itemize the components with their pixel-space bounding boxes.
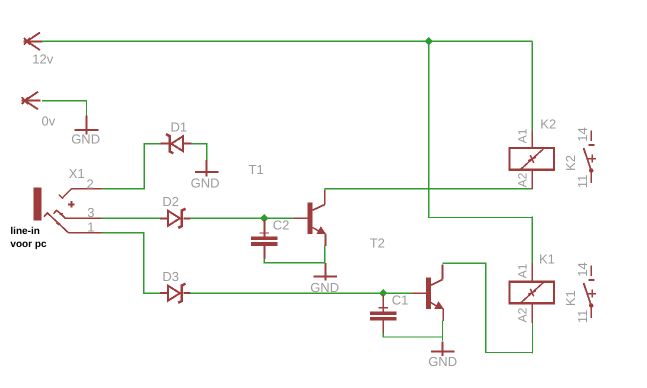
svg-text:3: 3 [87, 205, 94, 220]
wire D2 to junction [190, 217, 264, 219]
connector X1 pin 2 contact [59, 189, 102, 198]
wire 12v to K2 A1 [531, 41, 533, 131]
svg-text:GND: GND [71, 132, 100, 147]
svg-text:A2: A2 [516, 172, 530, 187]
wire 12v rail [42, 40, 532, 42]
diode D2 zener [160, 209, 191, 228]
svg-text:11: 11 [575, 175, 590, 189]
ground symbol below D1 [195, 160, 219, 177]
svg-text:K1: K1 [563, 290, 578, 306]
svg-text:A1: A1 [516, 263, 530, 278]
svg-text:A2: A2 [516, 307, 530, 322]
wire X1 pin 2 to D1 [101, 188, 144, 190]
ground symbol below T2 [431, 341, 455, 356]
wire X1 pin 3 to D2 [101, 217, 160, 219]
svg-text:K1: K1 [539, 251, 555, 266]
svg-text:D2: D2 [162, 194, 179, 209]
wire X1 pin 1 to D3 [101, 232, 143, 234]
diode D3 zener [160, 284, 191, 303]
svg-text:X1: X1 [69, 166, 85, 181]
svg-text:0v: 0v [42, 113, 56, 128]
relay coil K2 [510, 148, 555, 170]
supply arrow 12v [24, 33, 43, 51]
junction at C1 tap [379, 289, 387, 297]
relay coil K1 pin A2 [531, 304, 533, 323]
svg-text:14: 14 [575, 262, 590, 276]
wire T1 emitter down [324, 246, 326, 264]
junction on 12v rail [424, 37, 432, 45]
svg-text:12v: 12v [32, 51, 53, 66]
svg-text:2: 2 [87, 176, 94, 191]
svg-text:1: 1 [87, 219, 94, 234]
wire 12v rail to K1 branch [428, 41, 430, 217]
svg-text:A1: A1 [516, 128, 530, 143]
wire branch to K1 A1 horizontal [428, 217, 533, 219]
svg-text:C1: C1 [392, 292, 409, 307]
svg-text:K2: K2 [563, 155, 578, 171]
svg-text:T2: T2 [370, 236, 385, 251]
svg-text:GND: GND [191, 175, 220, 190]
connector X1 pin 3 contact dimple [60, 213, 63, 216]
wire T2 emitter to ground [442, 320, 444, 341]
junction at C2 tap [260, 214, 268, 222]
svg-text:C2: C2 [273, 217, 290, 232]
connector X1 pin 1 contact dimple [57, 222, 60, 224]
wire junction to T1 base [264, 217, 296, 219]
svg-text:K2: K2 [540, 117, 556, 132]
wire T1 collector to K2 A2 [325, 188, 533, 190]
wire junction to T2 base [383, 292, 414, 294]
ground symbol near 0v [75, 116, 99, 135]
transistor T2 [412, 265, 444, 322]
capacitor C1 [370, 295, 396, 334]
wire branch to K1 A1 vertical [531, 217, 533, 264]
wire 0v to ground [42, 100, 87, 102]
svg-text:line-in: line-in [10, 226, 39, 237]
connector X1 body [34, 188, 42, 221]
relay coil K1 pin A1 [531, 263, 533, 281]
wire T2 collector to K1 A2 [443, 262, 486, 264]
svg-text:D3: D3 [162, 269, 179, 284]
relay coil K2 pin A1 [531, 131, 533, 147]
connector X1 polarity mark + [68, 201, 74, 207]
connector X1 pin 1 contact [44, 213, 102, 233]
diode D1 zener [160, 134, 191, 153]
capacitor C2 [251, 220, 277, 259]
supply arrow 0v [22, 92, 41, 110]
svg-text:D1: D1 [171, 120, 188, 135]
transistor T1 [294, 190, 326, 247]
wire C1 to T2 emitter [382, 333, 384, 337]
svg-text:11: 11 [575, 310, 590, 324]
wire D3 to junction [190, 292, 383, 294]
svg-text:voor pc: voor pc [10, 239, 47, 250]
wire C2 to T1 emitter [263, 259, 265, 263]
relay coil K2 pin A2 [531, 171, 533, 189]
relay coil K1 [510, 282, 555, 304]
relay contact K1 [584, 266, 597, 319]
svg-text:T1: T1 [249, 162, 264, 177]
relay contact K2 [584, 131, 597, 184]
connector X1 pin 3 contact [54, 210, 102, 218]
ground symbol below T1 [314, 263, 338, 281]
svg-text:GND: GND [428, 354, 457, 369]
svg-text:14: 14 [575, 127, 590, 141]
wire D1 to ground [192, 143, 207, 145]
